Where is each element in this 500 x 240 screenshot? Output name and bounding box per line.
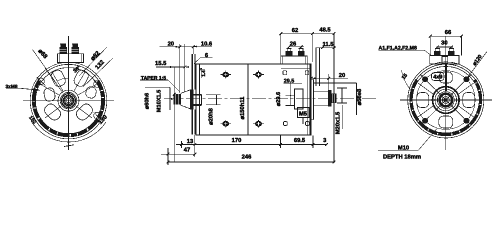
svg-text:29.5: 29.5 (284, 78, 295, 84)
svg-text:DEPTH 18mm: DEPTH 18mm (383, 154, 421, 161)
svg-text:1.4: 1.4 (201, 70, 206, 77)
svg-text:69.5: 69.5 (294, 137, 306, 144)
svg-text:TAPER 1:5: TAPER 1:5 (141, 75, 166, 81)
svg-text:M5: M5 (299, 112, 308, 118)
svg-text:48.5: 48.5 (319, 27, 331, 34)
svg-text:47: 47 (184, 148, 190, 154)
svg-text:10.6: 10.6 (201, 40, 213, 47)
svg-text:⌀58e8: ⌀58e8 (356, 88, 363, 105)
svg-text:⌀60h6: ⌀60h6 (144, 93, 151, 109)
svg-text:⌀29.6: ⌀29.6 (276, 92, 282, 106)
svg-text:M20x1.5: M20x1.5 (335, 111, 342, 134)
svg-text:30: 30 (441, 40, 447, 47)
svg-text:3xM8: 3xM8 (6, 84, 18, 90)
svg-text:246: 246 (242, 154, 252, 161)
svg-text:26: 26 (290, 40, 297, 47)
svg-text:M10X1.5: M10X1.5 (157, 90, 163, 112)
svg-text:170: 170 (232, 137, 242, 144)
svg-text:62: 62 (292, 27, 298, 34)
svg-text:4x9: 4x9 (433, 74, 442, 80)
svg-text:66: 66 (445, 29, 452, 36)
svg-text:15.5: 15.5 (155, 61, 167, 67)
svg-text:13: 13 (187, 138, 194, 145)
svg-text:A1,F1,A2,F2,M8: A1,F1,A2,F2,M8 (379, 45, 417, 51)
svg-text:⌀150h11: ⌀150h11 (239, 96, 246, 120)
svg-text:20: 20 (168, 41, 174, 48)
svg-text:M10: M10 (398, 144, 409, 151)
svg-text:⌀20h8: ⌀20h8 (207, 107, 214, 124)
svg-text:20: 20 (339, 72, 345, 79)
svg-text:11.5: 11.5 (323, 42, 335, 48)
